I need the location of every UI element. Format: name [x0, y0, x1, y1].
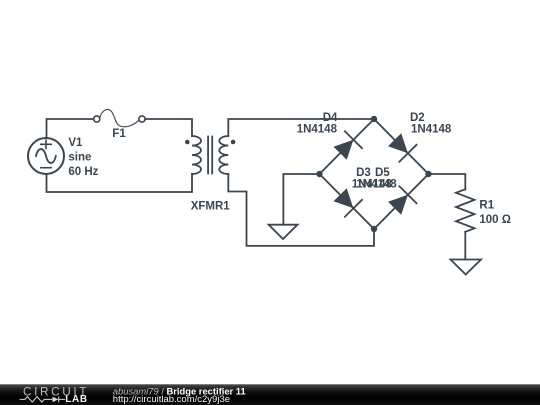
ground (below R1)	[451, 260, 482, 275]
ground (bridge left)	[269, 225, 298, 239]
CircuitLab logo	[20, 385, 89, 405]
svg-text:sine: sine	[68, 152, 91, 164]
wire V1 top to fuse	[47, 119, 94, 138]
wire bridge edge left-top	[320, 119, 375, 174]
junction right vertex	[425, 171, 431, 177]
footer bar	[0, 384, 540, 405]
svg-text:1N4148: 1N4148	[356, 179, 397, 191]
svg-text:60 Hz: 60 Hz	[68, 166, 98, 178]
svg-text:D2: D2	[410, 112, 425, 124]
svg-text:V1: V1	[68, 137, 83, 149]
wire bridge edge bottom-right	[374, 174, 429, 229]
svg-text:LAB: LAB	[65, 394, 88, 405]
junction top vertex	[371, 116, 377, 122]
voltage source V1	[28, 138, 64, 174]
label D3	[352, 167, 393, 191]
diode D5	[388, 186, 417, 215]
label R1	[479, 200, 511, 227]
transformer XFMR1	[185, 136, 235, 174]
diode D4	[334, 131, 363, 160]
svg-text:D3: D3	[356, 167, 371, 179]
svg-text:100 Ω: 100 Ω	[479, 214, 511, 226]
svg-text:F1: F1	[112, 128, 126, 140]
resistor R1	[456, 189, 475, 232]
svg-text:1N4148: 1N4148	[411, 123, 452, 135]
svg-text:D4: D4	[323, 112, 338, 124]
wire bridge edge top-right	[374, 119, 429, 174]
svg-text:1N4148: 1N4148	[297, 123, 338, 135]
wire bridge edge left-bottom	[320, 174, 375, 229]
junction bottom vertex	[371, 226, 377, 232]
wire resistor to ground	[464, 232, 466, 260]
label D2	[410, 112, 452, 135]
diode D2	[388, 133, 417, 162]
label V1 value	[68, 137, 98, 178]
svg-text:XFMR1: XFMR1	[191, 201, 231, 213]
svg-text:http://circuitlab.com/c2y9j3e: http://circuitlab.com/c2y9j3e	[113, 394, 230, 405]
fuse F1	[94, 109, 145, 126]
diode D3	[334, 188, 363, 217]
svg-text:R1: R1	[479, 200, 494, 212]
wire secondary bottom to bridge bottom vertex	[228, 174, 374, 246]
wire primary bottom to V1 bottom	[47, 174, 193, 192]
label D5	[356, 167, 397, 191]
svg-text:D5: D5	[375, 167, 390, 179]
wire fuse to transformer primary	[145, 119, 192, 136]
wire left vertex to ground	[283, 174, 319, 225]
wire secondary top to bridge top vertex	[228, 119, 374, 136]
label D4	[297, 112, 338, 135]
wire right vertex to resistor	[429, 174, 466, 189]
junction left vertex	[316, 171, 322, 177]
